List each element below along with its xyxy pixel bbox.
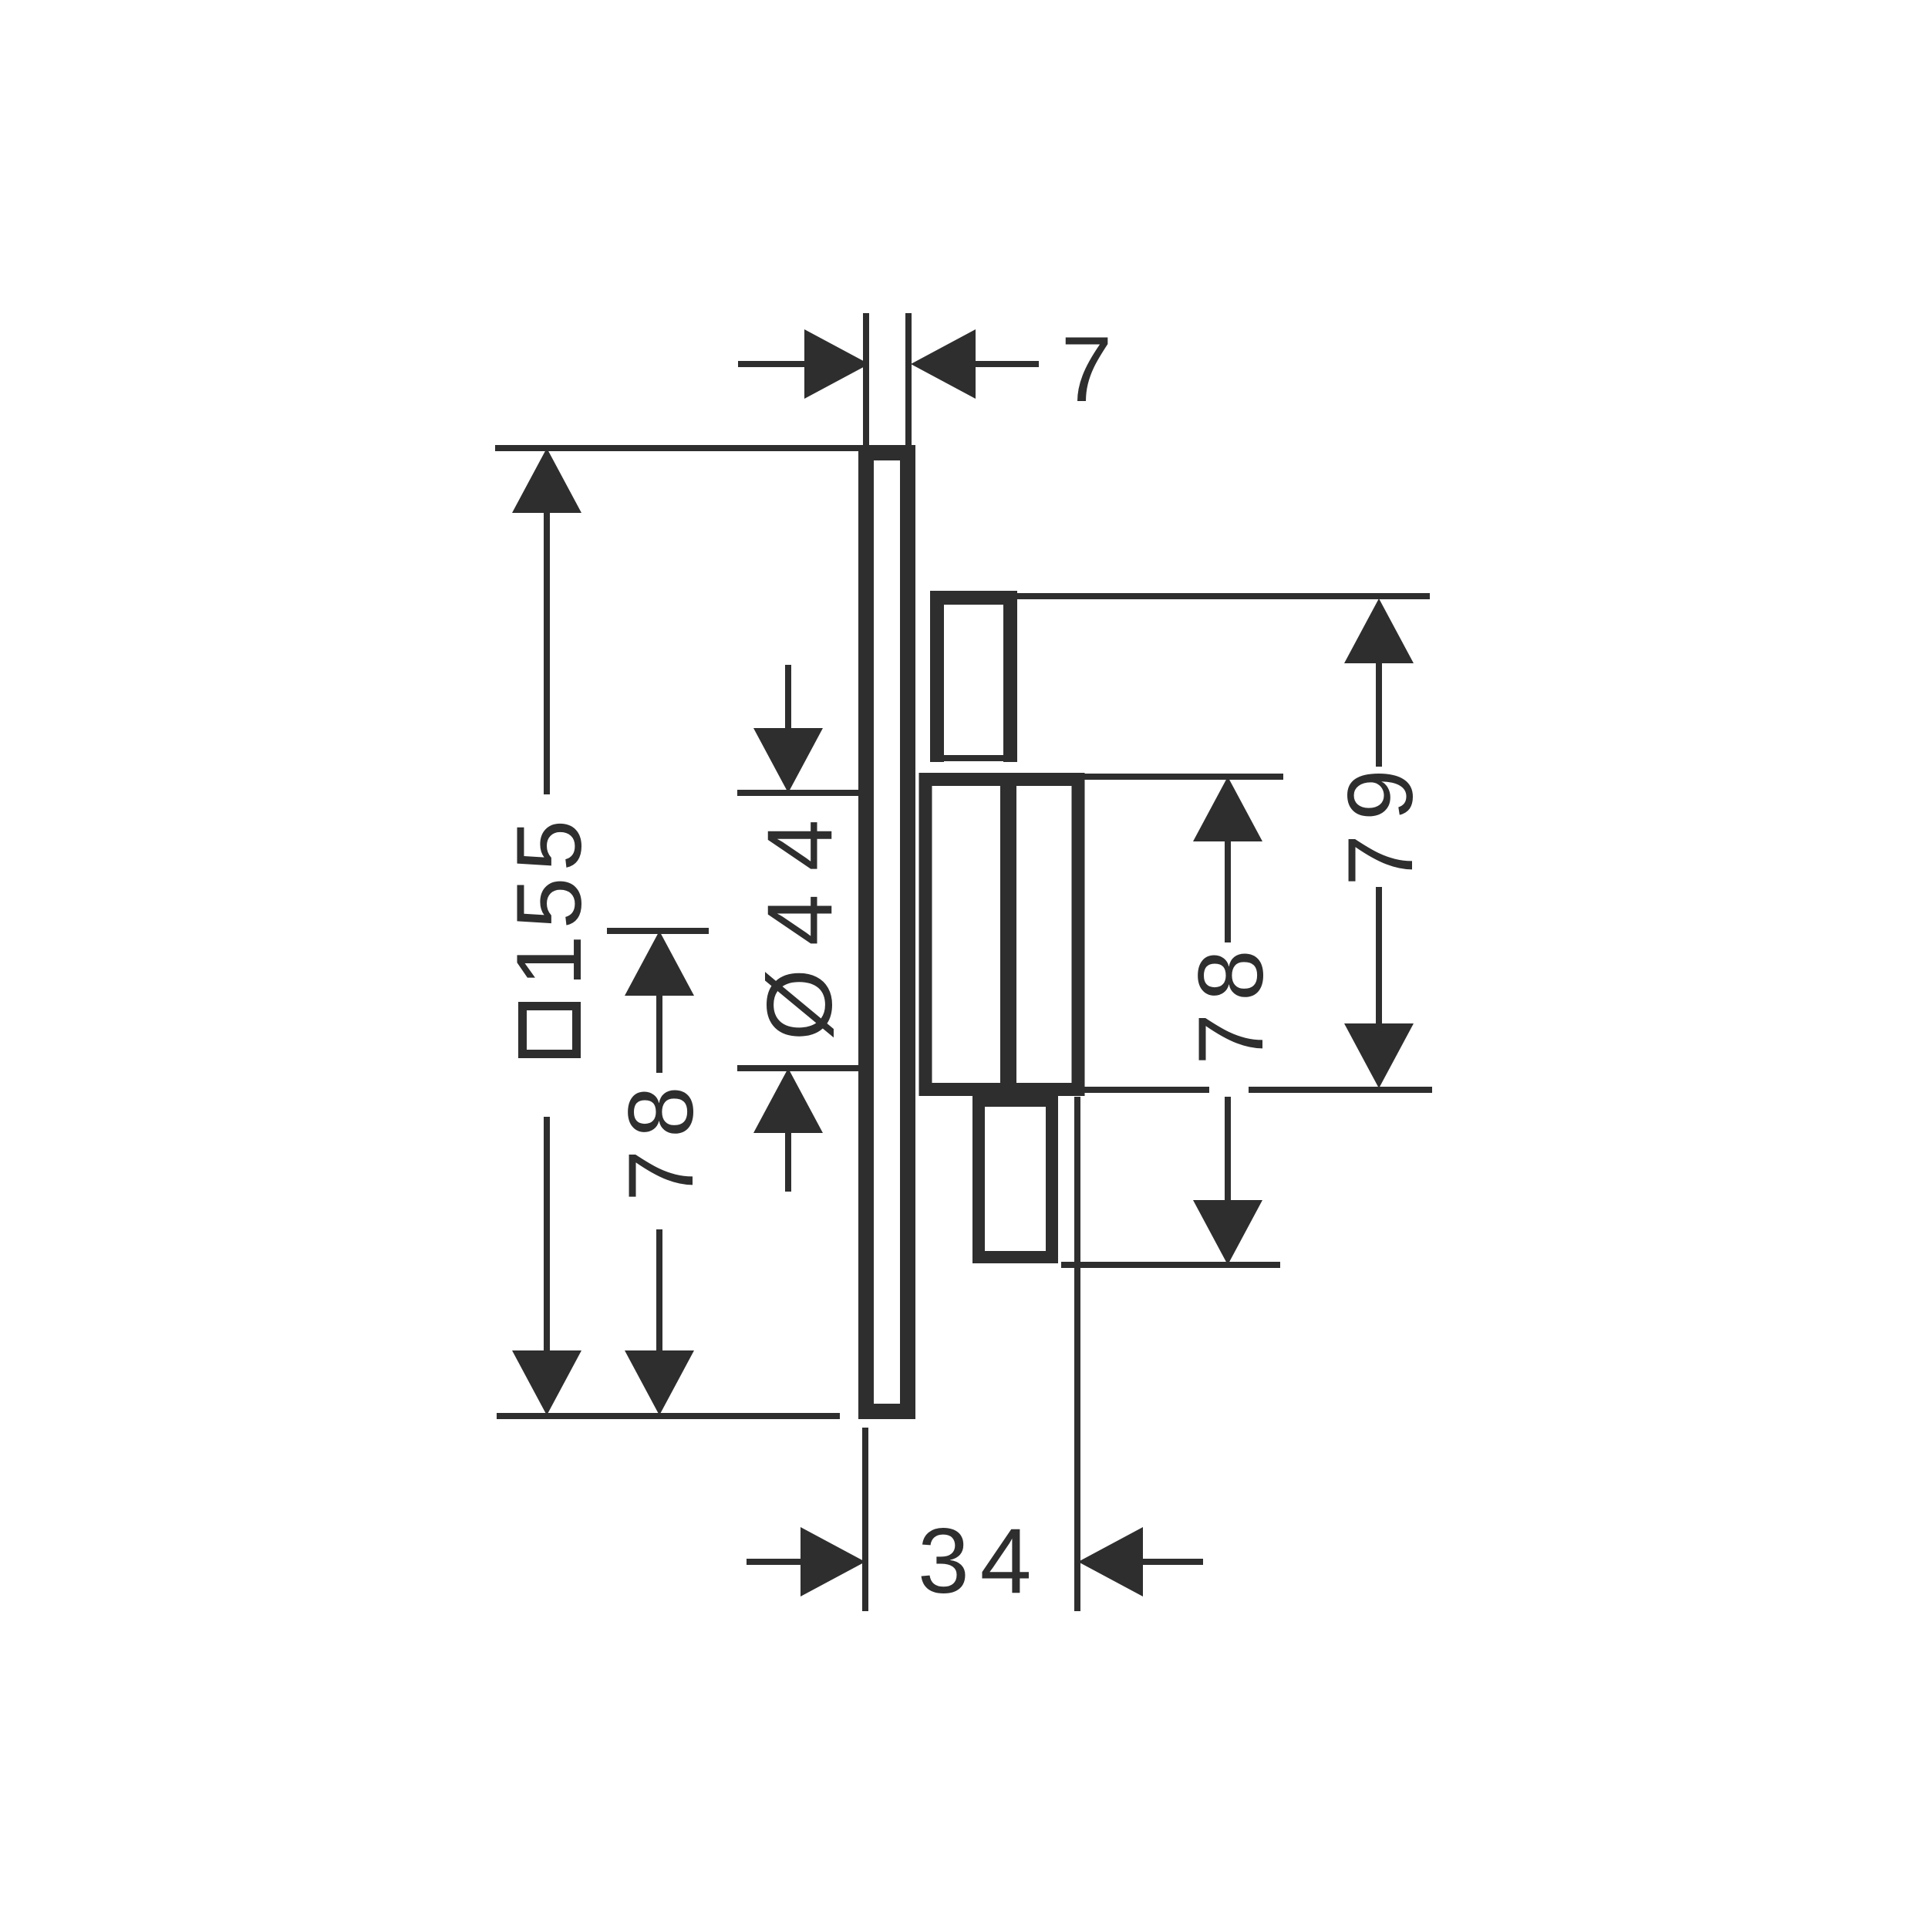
extension line: body top extended right (for right 78) [1084, 774, 1283, 780]
body inner divider line [1000, 773, 1016, 1096]
dimension line 7: right tail [972, 361, 1039, 367]
valve main body [925, 780, 1078, 1090]
dimension line 7: left tail [738, 361, 808, 367]
dimension line dia44: top tail [785, 665, 791, 731]
arrowhead 7 right (points left) [911, 329, 976, 399]
dimension line right 78 segments [1225, 841, 1231, 942]
dimension line 34: left tail [747, 1559, 811, 1565]
upper port stub [937, 598, 1010, 762]
extension line: upper stub top extended right (for 79) [1011, 593, 1430, 599]
arrowhead dia44 bottom (points up) [753, 1068, 823, 1133]
svg-text:78: 78 [1179, 937, 1283, 1064]
svg-text:155: 155 [497, 814, 601, 986]
wall plate (side view, tall thin rectangle) [866, 453, 908, 1411]
upper port stub bottom edge (thin) [930, 755, 1017, 761]
extension line: body bottom extended right (for 79), gap at 78 line [1084, 1087, 1209, 1093]
arrowhead 34 left (points right) [801, 1527, 865, 1597]
arrowhead 79 top (points up) [1344, 598, 1414, 663]
arrowhead 7 left (points right) [804, 329, 869, 399]
extension line: plate bottom extended left [497, 1413, 840, 1419]
arrowhead right78 top (points up) [1193, 777, 1262, 841]
label square symbol of 155 [523, 1006, 577, 1054]
dimension line left 78 segments [656, 995, 662, 1073]
extension line: centerline stub (for left 78) [607, 928, 709, 934]
arrowhead 34 right (points left) [1078, 1527, 1143, 1597]
svg-text:Ø44: Ø44 [748, 797, 851, 1041]
dimension line 155 segments [544, 511, 550, 794]
svg-text:7: 7 [1061, 318, 1113, 421]
svg-text:79: 79 [1329, 755, 1432, 885]
dimension line 79 segments [1376, 662, 1382, 767]
arrowhead right78 bottom (points down) [1193, 1200, 1262, 1265]
extension line: plate left vertical above (for 7) [863, 313, 869, 447]
svg-text:78: 78 [609, 1074, 713, 1201]
svg-text:34: 34 [918, 1509, 1042, 1613]
arrowhead left78 bottom (points down) [625, 1350, 694, 1415]
extension line: lower stub bottom extended right (for right 78) [1061, 1262, 1280, 1268]
dimension line 34: right tail [1143, 1559, 1203, 1565]
extension line: cylinder top (for dia 44) [737, 790, 860, 796]
extension line: plate right vertical above (for 7) [905, 313, 912, 451]
arrowhead 155 top (points up) [512, 448, 581, 513]
extension line: cylinder bottom (for dia 44) [737, 1065, 860, 1071]
extension line: plate left face downward (for 34) [862, 1428, 868, 1611]
dimension line dia44: bottom tail [785, 1130, 791, 1192]
extension line: body right face downward (for 34) [1074, 1097, 1080, 1611]
arrowhead left78 top (points up) [625, 931, 694, 996]
extension line: plate top extended left [495, 445, 863, 451]
arrowhead 79 bottom (points down) [1344, 1023, 1414, 1088]
arrowhead dia44 top (points down) [753, 728, 823, 793]
arrowhead 155 bottom (points down) [512, 1350, 581, 1415]
lower port stub [979, 1101, 1052, 1257]
